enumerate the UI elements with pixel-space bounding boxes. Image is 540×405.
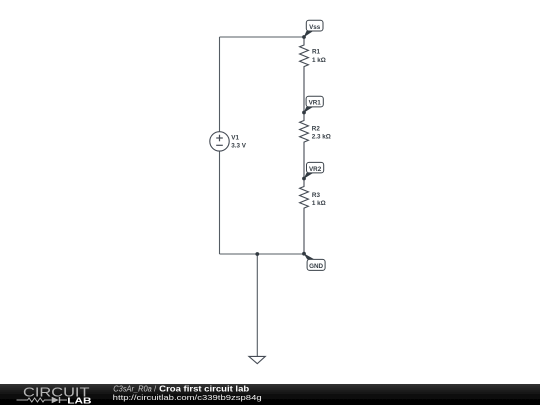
svg-text:R2: R2 [312, 125, 321, 132]
svg-text:1 kΩ: 1 kΩ [312, 200, 326, 207]
svg-text:VR2: VR2 [309, 166, 322, 173]
svg-text:R3: R3 [312, 192, 321, 199]
svg-text:3.3 V: 3.3 V [231, 143, 247, 150]
svg-text:1 kΩ: 1 kΩ [312, 57, 326, 64]
svg-text:GND: GND [309, 263, 323, 270]
svg-text:VR1: VR1 [309, 100, 322, 107]
svg-text:LAB: LAB [67, 396, 92, 405]
svg-text:2.3 kΩ: 2.3 kΩ [312, 133, 331, 140]
svg-text:R1: R1 [312, 49, 321, 56]
svg-text:Croa first circuit lab: Croa first circuit lab [159, 384, 249, 393]
svg-text:C3sAr_R0a: C3sAr_R0a [113, 384, 152, 393]
svg-text:Vss: Vss [309, 24, 321, 31]
svg-text:V1: V1 [231, 135, 239, 142]
svg-text:http://circuitlab.com/c339tb9z: http://circuitlab.com/c339tb9zsp84g [113, 393, 262, 402]
